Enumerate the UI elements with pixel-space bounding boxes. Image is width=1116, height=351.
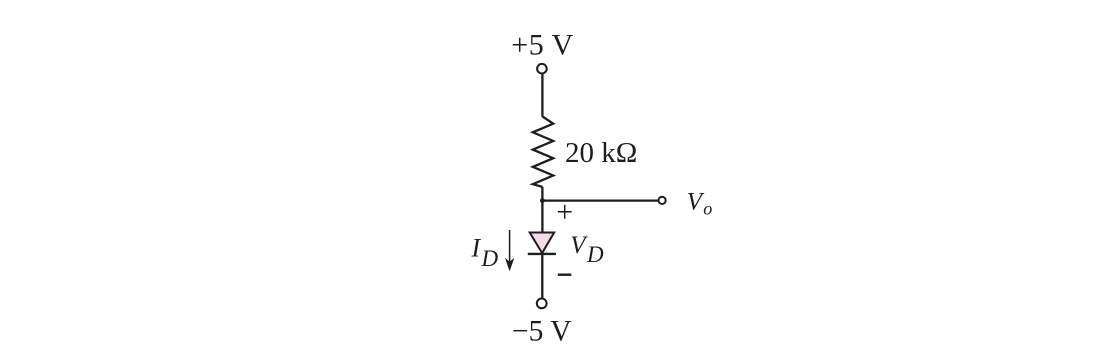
wire from +5V terminal to resistor (541, 74, 543, 117)
wire output horizontal (542, 199, 658, 201)
svg-text:+: + (556, 196, 573, 229)
svg-text:D: D (586, 242, 604, 267)
wire from resistor to diode anode (541, 187, 543, 233)
current arrow ID (509, 230, 511, 262)
node junction dot (540, 198, 545, 203)
svg-text:I: I (471, 234, 482, 263)
svg-text:−5 V: −5 V (512, 316, 572, 348)
svg-text:20 kΩ: 20 kΩ (565, 137, 637, 169)
svg-text:V: V (687, 189, 705, 216)
terminal -5V (537, 299, 547, 309)
resistor R 20k zigzag (533, 116, 553, 186)
svg-text:D: D (481, 246, 499, 271)
svg-text:o: o (703, 199, 712, 219)
wire from diode cathode to -5V terminal (541, 254, 543, 298)
minus polarity mark (558, 274, 572, 276)
svg-text:+5 V: +5 V (511, 29, 574, 62)
svg-text:V: V (570, 232, 588, 259)
diode D1 triangle (530, 233, 555, 254)
terminal +5V (537, 64, 547, 74)
terminal Vo output (659, 197, 666, 204)
diode D1 cathode bar (528, 253, 556, 255)
